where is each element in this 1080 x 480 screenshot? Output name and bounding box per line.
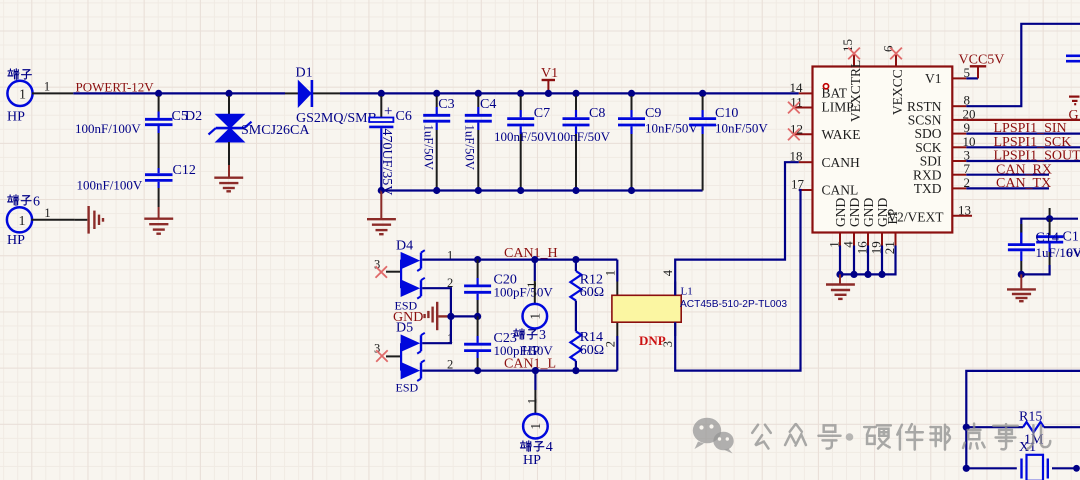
svg-text:1: 1: [604, 270, 618, 276]
pin 5 V1: [925, 65, 970, 86]
svg-text:1: 1: [526, 398, 540, 404]
svg-text:HP: HP: [7, 109, 25, 124]
svg-text:GND: GND: [833, 198, 848, 227]
pin 9 SDO / LPSPI1_SIN: [914, 120, 1080, 141]
svg-text:C8: C8: [589, 106, 605, 121]
capacitor C12 100nF/100V: [77, 163, 196, 207]
node junction R14 bottom: [572, 367, 579, 374]
svg-text:SMCJ26CA: SMCJ26CA: [241, 123, 310, 138]
wire bottom GND rail of capacitor bank: [381, 189, 702, 191]
svg-text:BAT: BAT: [822, 86, 848, 101]
earth ground at 端子6: [75, 206, 103, 234]
node junctions GND bus: [836, 271, 843, 278]
svg-text:ACT45B-510-2P-TL003: ACT45B-510-2P-TL003: [680, 299, 787, 310]
pin 4 GND: [841, 198, 863, 275]
svg-text:L1: L1: [681, 286, 693, 298]
svg-text:11: 11: [790, 95, 803, 110]
wire D1 leads: [285, 92, 298, 94]
svg-text:1: 1: [19, 214, 26, 229]
svg-text:2: 2: [447, 357, 453, 371]
pin 1 GND: [827, 198, 849, 275]
terminal 端子 (HP) pin 1: [7, 80, 73, 125]
TVS diode D2 SMCJ26CA: [185, 96, 310, 165]
node junction C7 bottom: [517, 187, 524, 194]
svg-text:WAKE: WAKE: [822, 127, 861, 142]
node junction C6 column: [378, 90, 385, 97]
pin 14 BAT: [790, 80, 848, 101]
svg-text:6: 6: [33, 194, 40, 209]
pin 19 GND: [869, 198, 891, 275]
ground below C6: [367, 191, 396, 235]
wire lower-right frame: [966, 371, 1080, 468]
svg-text:R15: R15: [1019, 409, 1042, 424]
svg-text:C10: C10: [715, 106, 738, 121]
svg-text:EP: EP: [885, 209, 900, 225]
common mode choke L1 ACT45B-510-2P-TL003: [604, 260, 788, 371]
label 端子: [8, 69, 31, 80]
svg-text:HP: HP: [523, 453, 541, 468]
watermark text: [752, 424, 1050, 450]
svg-text:1: 1: [529, 423, 544, 430]
capacitor C8 100nF/50V: [551, 96, 611, 191]
pin 18 CANH: [790, 149, 861, 170]
capacitor C3 1uF/50V: [422, 96, 455, 191]
pin 16 GND: [855, 198, 877, 275]
node junction C4 bottom: [475, 187, 482, 194]
capacitor C10 10nF/50V: [689, 96, 768, 191]
pin 8 RSTN: [907, 93, 970, 114]
watermark logo: [693, 418, 734, 454]
node junction C6 bottom: [378, 187, 385, 194]
svg-text:V1: V1: [925, 71, 942, 86]
capacitor C20 100pF/50V: [464, 260, 553, 317]
capacitor C5 100nF/100V: [75, 96, 188, 168]
node junction C8 top: [572, 90, 579, 97]
svg-text:D1: D1: [296, 66, 313, 81]
op-amp/transceiver U1 body: [813, 67, 953, 233]
svg-text:G: G: [1069, 108, 1079, 123]
node junction C14 top: [1046, 215, 1053, 222]
svg-text:60Ω: 60Ω: [580, 343, 604, 358]
node junction C9 top: [628, 90, 635, 97]
capacitor C9 10nF/50V: [618, 96, 698, 191]
power port V1: [541, 66, 558, 93]
svg-text:C9: C9: [645, 106, 661, 121]
wire choke pin3 to CANL: [675, 190, 800, 371]
svg-text:VEXCTRL: VEXCTRL: [848, 60, 863, 122]
capacitor C4 1uF/50V: [462, 96, 496, 191]
ESD diode D4: [374, 239, 453, 313]
svg-text:1: 1: [525, 282, 539, 288]
svg-text:1uF/50V: 1uF/50V: [422, 125, 436, 171]
wire SCSN (red net to edge) with G label: [966, 108, 1080, 123]
svg-text:DNP: DNP: [639, 333, 666, 348]
wire gnd node to capacitor mid: [451, 315, 478, 317]
earth ground GND (CAN section): [425, 302, 449, 330]
svg-text:100pF/50V: 100pF/50V: [494, 284, 554, 299]
svg-text:HP: HP: [522, 344, 540, 359]
wire D4 pin2 to gnd node: [422, 288, 451, 316]
resistor R12 60ohm: [570, 260, 604, 332]
svg-text:13: 13: [958, 202, 971, 217]
node junction C3 top: [433, 90, 440, 97]
svg-text:0V: 0V: [1067, 245, 1080, 260]
svg-text:1: 1: [44, 206, 50, 220]
svg-text:GND: GND: [393, 310, 423, 325]
terminal 端子3 (HP) pin 1: [522, 260, 547, 359]
pin 7 RXD / CAN_RX: [913, 161, 1052, 182]
label 端子3: [514, 328, 546, 343]
terminal 端子6 (HP) pin 1: [7, 206, 75, 248]
node junction C10 top: [699, 90, 706, 97]
svg-text:VEXCC: VEXCC: [890, 69, 905, 115]
capacitor C15 (overlapping, right branch): [1021, 219, 1080, 275]
label 端子6: [8, 194, 40, 209]
svg-text:TXD: TXD: [914, 181, 942, 196]
svg-text:C6: C6: [396, 109, 412, 124]
wire choke pin4 to CANH: [675, 162, 799, 295]
pin 17 CANL: [791, 177, 858, 198]
svg-text:C4: C4: [480, 97, 496, 112]
terminal 端子4 (HP) pin 1: [523, 371, 548, 468]
svg-text:CANH: CANH: [822, 155, 861, 170]
svg-text:C7: C7: [534, 106, 550, 121]
svg-text:ESD: ESD: [396, 381, 419, 395]
svg-text:C1: C1: [1063, 230, 1079, 245]
node junction R15 left: [963, 424, 970, 431]
power bar symbol at right edge (top): [1066, 56, 1080, 61]
svg-text:POWERT-12V: POWERT-12V: [76, 80, 155, 95]
ground below U1: [826, 274, 855, 299]
svg-text:100nF/50V: 100nF/50V: [494, 129, 554, 144]
node junction C20 top: [474, 256, 481, 263]
svg-text:4: 4: [661, 269, 675, 276]
pin 2 TXD / CAN_TX: [914, 175, 1051, 196]
capacitor C6 470UF/35V polarized: [369, 96, 412, 195]
svg-text:14: 14: [790, 80, 804, 95]
diode D1 GS2MQ/SMB: [296, 66, 377, 126]
node junction D2 column: [225, 90, 232, 97]
pin 11 LIMP (no connect X): [788, 95, 854, 115]
svg-text:D4: D4: [396, 239, 413, 254]
node junction X1 left: [963, 465, 970, 472]
svg-text:D2: D2: [185, 109, 202, 124]
ESD diode D5: [374, 321, 453, 395]
pin 10 SCK / LPSPI1_SCK: [915, 134, 1080, 155]
pin 13 V2/VEXT: [887, 202, 972, 224]
svg-text:100nF/100V: 100nF/100V: [77, 178, 143, 193]
node junction caps mid: [474, 313, 481, 320]
pin stub above node: [1049, 208, 1051, 219]
pin 12 WAKE (no connect X): [788, 121, 861, 142]
svg-text:1: 1: [44, 80, 50, 94]
svg-text:V1: V1: [541, 66, 558, 81]
node junction C23 bottom: [474, 367, 481, 374]
svg-text:HP: HP: [7, 233, 25, 248]
node junction C4 top: [475, 90, 482, 97]
svg-text:2: 2: [604, 341, 618, 347]
svg-text:3: 3: [539, 328, 546, 343]
pin 21 EP: [882, 209, 900, 275]
svg-text:VCC5V: VCC5V: [959, 53, 1005, 68]
crystal X1: [966, 440, 1080, 480]
wire RSTN to top right: [966, 24, 1080, 106]
svg-text:GND: GND: [861, 198, 876, 227]
resistor R14 60ohm: [570, 330, 604, 370]
ground below D2: [214, 165, 243, 191]
svg-text:100nF/100V: 100nF/100V: [75, 121, 141, 136]
label 端子4: [520, 440, 552, 455]
node junction C9 bottom: [628, 187, 635, 194]
svg-text:10nF/50V: 10nF/50V: [645, 120, 698, 135]
node junction R12 top: [572, 256, 579, 263]
ground below C12: [144, 207, 173, 234]
node junction T3 top: [531, 256, 538, 263]
svg-text:100nF/50V: 100nF/50V: [551, 129, 611, 144]
svg-text:1uF/50V: 1uF/50V: [462, 125, 476, 171]
wire GND bus under U1: [840, 273, 882, 275]
ground symbol fragment at right edge: [1069, 97, 1080, 105]
pin 15 VEXCTRL (no connect X): [840, 39, 863, 122]
svg-text:15: 15: [840, 39, 855, 52]
power port VCC5V: [959, 53, 1005, 79]
svg-text:1: 1: [19, 88, 26, 103]
ground below C14: [1007, 274, 1036, 301]
svg-text:CANL: CANL: [822, 183, 859, 198]
svg-text:470UF/35V: 470UF/35V: [379, 129, 394, 196]
capacitor C23 100pF/50V: [464, 316, 553, 370]
node junction C7 top: [517, 90, 524, 97]
svg-text:C12: C12: [173, 163, 196, 178]
svg-text:17: 17: [791, 177, 805, 192]
pin 3 SDI / LPSPI1_SOUT: [920, 148, 1080, 169]
wire D5 pin1 to gnd node: [422, 316, 451, 343]
capacitor C7 100nF/50V: [494, 96, 554, 191]
capacitor C14 1uF/16V: [1008, 224, 1035, 274]
wire main +12V rail left of D1: [73, 92, 285, 94]
svg-text:+: +: [384, 103, 392, 119]
svg-text:12: 12: [790, 121, 803, 136]
resistor R15 1M: [966, 409, 1080, 447]
node junction T4 top: [532, 367, 539, 374]
wire C14 top rail: [1021, 219, 1078, 245]
wire main +12V rail right of D1: [340, 92, 799, 94]
node junction gnd mid: [447, 313, 454, 320]
svg-text:4: 4: [546, 440, 553, 455]
pin 20 SCSN: [908, 106, 976, 127]
wire CAN1_L rail: [422, 370, 617, 372]
svg-text:GND: GND: [847, 198, 862, 227]
node junction C3 bottom: [433, 187, 440, 194]
node junction C8 bottom: [572, 187, 579, 194]
node junction V1: [545, 90, 552, 97]
svg-text:10nF/50V: 10nF/50V: [715, 120, 768, 135]
svg-text:1: 1: [529, 313, 544, 320]
node junction C5 column: [155, 90, 162, 97]
svg-text:60Ω: 60Ω: [580, 285, 604, 300]
svg-text:CAN_TX: CAN_TX: [996, 176, 1051, 191]
svg-text:C14: C14: [1036, 231, 1059, 246]
pin 6 VEXCC (no connect X): [881, 45, 906, 115]
wire CAN1_H rail: [422, 259, 617, 261]
node junction C14 bottom: [1018, 271, 1025, 278]
svg-text:C3: C3: [438, 97, 454, 112]
